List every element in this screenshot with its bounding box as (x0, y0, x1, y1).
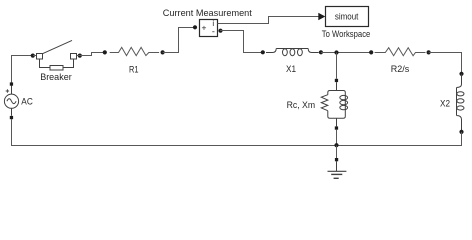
voltage source AC (4, 86, 18, 116)
node dot X1 left (261, 50, 265, 54)
wire CM i output to simout (218, 17, 319, 24)
node junction dot above Rc,Xm (334, 50, 338, 54)
op-amp U1 Current Measurement block (200, 20, 218, 37)
resistor R1 (110, 47, 159, 55)
svg-text:Rc, Xm: Rc, Xm (287, 100, 316, 111)
pin Rc,Xm bottom port (335, 126, 338, 129)
node dot R2/s left (369, 50, 373, 54)
svg-text:Breaker: Breaker (40, 72, 71, 83)
parallel RLC branch Rc, Xm (321, 82, 347, 126)
svg-text:Current Measurement: Current Measurement (163, 8, 252, 19)
svg-text:AC: AC (21, 96, 33, 107)
node dot CM input (193, 25, 197, 29)
wire R2/s to X2 top (429, 53, 462, 75)
node junction dot left of Breaker (31, 54, 35, 58)
node dot R2/s right (427, 50, 431, 54)
svg-text:R2/s: R2/s (391, 64, 410, 75)
node dot X2 top (459, 72, 463, 76)
block simout (To Workspace) (326, 7, 369, 27)
svg-text:X2: X2 (440, 99, 450, 110)
svg-text:simout: simout (335, 11, 359, 22)
node junction dot on rail at ground (334, 143, 338, 147)
pin ground port (335, 158, 338, 161)
node dot X2 bottom (459, 130, 463, 134)
pin AC top port (10, 82, 13, 85)
node dot R1 left (103, 50, 107, 54)
node dot X1 right (319, 50, 323, 54)
inductor X2 (457, 74, 465, 132)
svg-text:R1: R1 (129, 64, 139, 75)
wire Rc,Xm bottom to rail (336, 130, 338, 146)
node dot R1 right (161, 50, 165, 54)
wire X2 bottom to rail (337, 132, 462, 146)
wire rail to ground port (336, 146, 338, 159)
svg-text:X1: X1 (286, 64, 296, 75)
arrowhead into simout (318, 13, 325, 21)
node dot CM minus output (218, 29, 222, 33)
breaker Breaker (37, 40, 77, 70)
ground (328, 161, 347, 178)
wire bottom rail left (12, 119, 337, 145)
wire X1 to R2/s through junction (321, 52, 371, 54)
node dot right of Breaker (78, 54, 82, 58)
inductor X1 (266, 49, 319, 56)
pin AC bottom port (10, 116, 13, 119)
wire R1 to Current Measurement (163, 28, 195, 53)
svg-text:To Workspace: To Workspace (322, 29, 371, 40)
svg-text:-: - (212, 26, 215, 36)
wire junction to Rc,Xm top (336, 53, 338, 79)
wire CM minus to X1 (220, 31, 263, 53)
wire dot to breaker left port (33, 55, 37, 57)
wire left vertical top (AC + to top rail) (12, 56, 33, 94)
wire breaker to R1 (77, 53, 105, 56)
resistor R2/s (375, 48, 426, 56)
pin Rc,Xm top port (335, 79, 338, 82)
svg-text:+: + (202, 22, 207, 32)
